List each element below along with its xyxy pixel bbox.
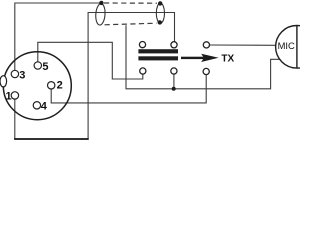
switch contact C2 (top middle) (171, 42, 177, 48)
svg-text:TX: TX (221, 54, 234, 65)
svg-text:MIC: MIC (278, 40, 295, 51)
wire: bottom black segment of pin1 run (14, 138, 89, 140)
wire: shield drop from dashed cable to common rail and MIC return (net COMMON) (126, 25, 280, 89)
wire: pin5 to switch contact B1 (net PIN5) (38, 42, 143, 79)
svg-text:5: 5 (42, 61, 48, 73)
solder dot right cable top (158, 1, 162, 5)
cable end ellipse right (156, 3, 164, 23)
pin 5 (34, 62, 41, 69)
svg-text:1: 1 (6, 90, 12, 102)
wire: switch contact C3 to MIC (net MIC+) (210, 44, 277, 46)
pin 2 (48, 82, 55, 89)
pin 4 (33, 102, 40, 109)
switch contact C3 (top right, TX line) (203, 42, 209, 48)
cable shield dashed top line (104, 2, 157, 4)
wire: pin2 to switch contact B3 (net PIN2) (51, 75, 206, 103)
MIC capsule circle (276, 26, 319, 69)
MIC diaphragm chord (296, 26, 298, 68)
wire: pin1 down, bottom run, up to cable conductor line (net PIN1) (15, 13, 175, 139)
PTT switch bar upper (138, 49, 178, 53)
solder dot right cable bottom (158, 20, 162, 24)
DIN connector keyway notch (0, 76, 7, 87)
svg-text:3: 3 (19, 69, 25, 81)
junction dot on common rail (172, 87, 176, 91)
cable shield dashed bottom line (105, 23, 157, 25)
TX press arrow shaft (181, 57, 205, 59)
wire: switch contact B2 drop to common rail (173, 74, 175, 89)
switch contact C1 (top left) (139, 42, 145, 48)
TX press arrow head (201, 54, 218, 62)
wire: pin3 to cable shield dot (net SHIELD) (15, 3, 101, 70)
pin 1 (11, 92, 18, 99)
solder dot left cable top (99, 1, 103, 5)
svg-text:4: 4 (41, 101, 48, 113)
switch contact B2 (bottom middle) (171, 68, 177, 74)
cable end ellipse left (95, 3, 106, 25)
DIN connector body circle (3, 52, 71, 120)
switch contact B1 (bottom left) (140, 68, 146, 74)
switch contact B3 (bottom right) (203, 68, 209, 74)
svg-text:2: 2 (57, 80, 63, 92)
PTT switch bar lower (138, 56, 178, 60)
pin 3 (11, 70, 18, 77)
